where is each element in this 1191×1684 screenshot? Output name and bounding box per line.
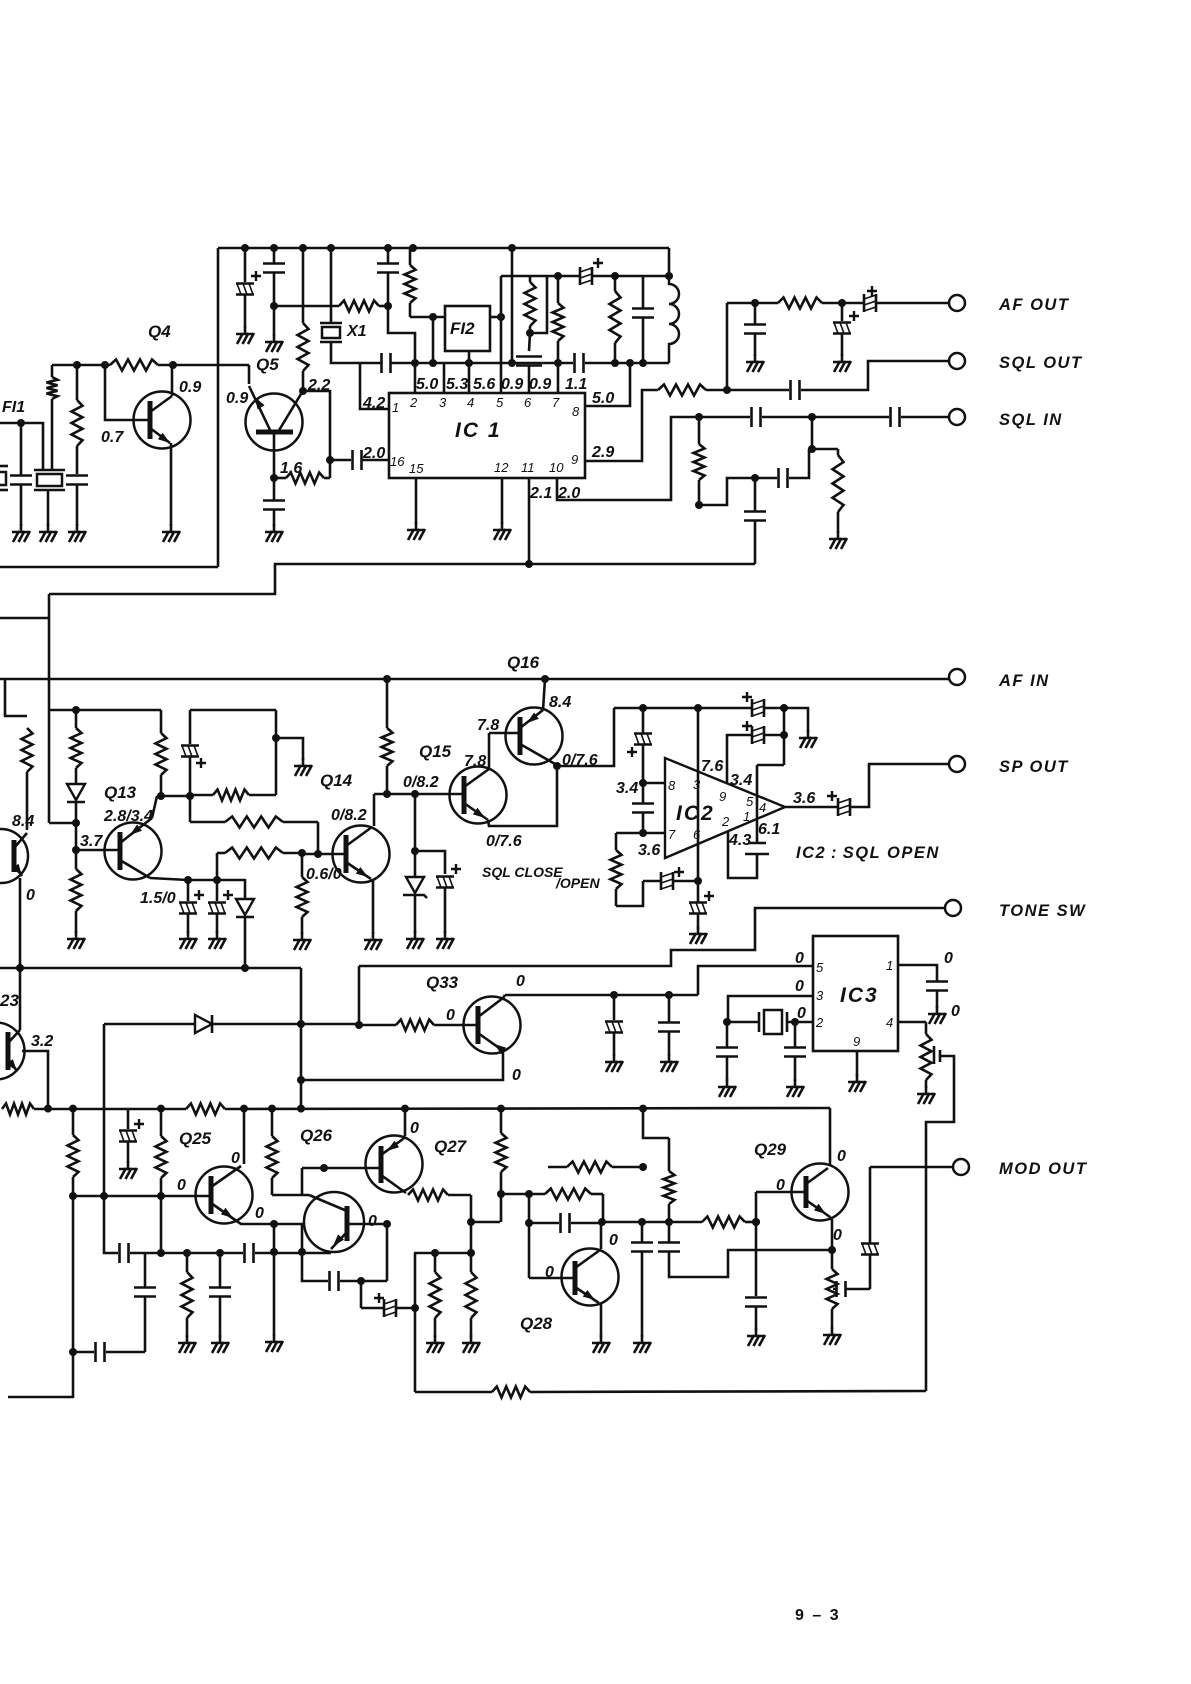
wire pin16 lead [330, 459, 351, 462]
wire C-R2 lead [76, 485, 79, 527]
svg-text:0: 0 [231, 1150, 240, 1167]
wire bottom rail b [530, 1391, 926, 1392]
wire Q5 base cap lead [273, 478, 276, 500]
wire 76 drop [75, 823, 78, 850]
resistor R73 [72, 1109, 75, 1135]
resistor R-Q33base [359, 1024, 396, 1027]
transistor Q14 collector [346, 827, 372, 846]
svg-text:2.9: 2.9 [591, 444, 614, 461]
wire ecap842 lead [841, 303, 844, 321]
capacitor C-Q5-base [263, 499, 285, 502]
node row-73 [69, 1105, 77, 1113]
wire x529 [528, 1194, 531, 1278]
node row-244 [240, 1105, 248, 1113]
node FI1 in [17, 419, 25, 427]
svg-text:1: 1 [392, 400, 399, 415]
wire x512 [511, 248, 514, 363]
svg-text:0: 0 [26, 887, 35, 904]
wire notch [5, 679, 27, 716]
svg-text:3: 3 [816, 988, 824, 1003]
node 359-1025 [355, 1021, 363, 1029]
transistor Q16 emitter lead [543, 679, 545, 710]
resistor R76a [75, 710, 78, 728]
wire tone sw [359, 908, 945, 966]
wire cap lead2 [20, 485, 23, 527]
wire 530-547 [530, 276, 547, 333]
wire ladder top [190, 709, 276, 712]
svg-text:7.6: 7.6 [701, 758, 723, 775]
transistor Q33 emitter [478, 1033, 502, 1050]
transistor Q13 bar [118, 832, 123, 870]
node 388-306 [384, 302, 392, 310]
capacitor C-1223 [559, 1213, 562, 1233]
svg-text:0: 0 [797, 1005, 806, 1022]
transistor Q23 [0, 1023, 25, 1080]
wire y1194 [501, 1193, 545, 1196]
svg-text:0.9: 0.9 [226, 390, 248, 407]
wire Q26 base wire [347, 1223, 387, 1226]
resistor R-Q12 [22, 728, 33, 772]
svg-text:7.8: 7.8 [464, 753, 486, 770]
node 756-1222b [752, 1218, 760, 1226]
diode D204 [195, 1015, 212, 1033]
opamp IC2 triangle [665, 758, 785, 858]
wire cap755 lead [754, 303, 757, 324]
node 301-1080 [297, 1076, 305, 1084]
transistor Q26 collector [309, 1195, 347, 1211]
wire Q4-Q5 link [248, 365, 251, 384]
wire ecap643 lead [642, 708, 645, 733]
node 73-1352 [69, 1348, 77, 1356]
resistor R-row-mid [186, 1104, 225, 1115]
wire r822 left leg [189, 795, 192, 822]
resistor R558 pin7 [557, 276, 560, 303]
capacitor C755b [744, 510, 766, 513]
wire y1352 b [106, 1351, 145, 1354]
ground G217 [216, 931, 219, 939]
wire ecap698 lead [697, 881, 700, 902]
resistor R501 [500, 1109, 503, 1133]
capacitor C-elec735 [751, 726, 754, 744]
wire y363 c [585, 362, 669, 365]
transistor Q5 [246, 394, 303, 451]
transistor Q16 [506, 708, 563, 765]
wire x104 ext [104, 1196, 118, 1253]
svg-text:1.6: 1.6 [280, 460, 302, 477]
wire y710 [49, 709, 161, 712]
node 501-1194 [497, 1190, 505, 1198]
capacitor C-afout [863, 294, 866, 312]
wire x361 [360, 1281, 363, 1308]
wire afout c [877, 302, 949, 305]
svg-text:9: 9 [853, 1034, 860, 1049]
node row-643 [639, 1105, 647, 1113]
wire ic3 pin3 [728, 996, 813, 1022]
node A2 [101, 361, 109, 369]
wire ecap842 lead2 [841, 334, 844, 356]
wire Q4 base [105, 365, 150, 420]
svg-text:3.2: 3.2 [31, 1033, 53, 1050]
transistor Q16 collector [520, 744, 555, 764]
node 433-363 [429, 359, 437, 367]
wire stub to gnd [276, 738, 303, 760]
node 76-823 [72, 819, 80, 827]
ground G755 [754, 354, 757, 362]
wire pin8 [585, 363, 630, 406]
node 471-1253 [467, 1249, 475, 1257]
transistor Q13 emitter [120, 818, 152, 843]
wire FI2 drop [432, 317, 435, 363]
wire 784-757 [757, 764, 784, 767]
ground G698 [697, 926, 700, 934]
wire Q16 base [489, 732, 520, 735]
node row-301 [297, 1105, 305, 1113]
svg-text:3.6: 3.6 [793, 790, 815, 807]
wire Q25 emitter [238, 1222, 302, 1252]
svg-text:SQL CLOSE: SQL CLOSE [482, 864, 563, 880]
node 104-1196 [100, 1192, 108, 1200]
svg-text:Q15: Q15 [419, 742, 452, 761]
wire Q25 base [73, 1195, 211, 1198]
wire y363 b [391, 362, 573, 365]
capacitor C-elec842 [833, 321, 851, 324]
node 73-1196 [69, 1192, 77, 1200]
svg-text:MOD OUT: MOD OUT [999, 1160, 1088, 1178]
svg-text:3: 3 [693, 777, 701, 792]
wire y1253 right [414, 1252, 471, 1255]
wire pin7 wire [643, 832, 665, 835]
node 643-1167 [639, 1163, 647, 1171]
svg-text:Q29: Q29 [754, 1140, 787, 1159]
svg-text:0: 0 [177, 1177, 186, 1194]
svg-text:Q13: Q13 [104, 783, 137, 802]
svg-text:Q26: Q26 [300, 1126, 333, 1145]
wire ecap188 lead2 [187, 914, 190, 933]
wire y1223 cap lead [529, 1222, 559, 1225]
wire x274 [273, 1224, 276, 1252]
node rail2 [270, 244, 278, 252]
capacitor C-elec190 [181, 744, 199, 747]
wire y1308 b [397, 1307, 415, 1310]
svg-text:IC 1: IC 1 [455, 419, 502, 442]
wire 415 drop [414, 794, 417, 851]
transistor Q15 bar [462, 776, 467, 814]
wire pin5 bus [698, 966, 813, 995]
plus C842 [849, 311, 859, 321]
ground G188 [187, 931, 190, 939]
ground G-FI1 [47, 524, 50, 532]
wire ecap643 lead2 [642, 745, 645, 782]
plus C128 [134, 1119, 144, 1129]
wire Q27 base [302, 1167, 381, 1170]
wire x471 [470, 1195, 473, 1253]
wire 217 drop [216, 853, 219, 880]
svg-text:8: 8 [572, 404, 580, 419]
svg-text:Q16: Q16 [507, 653, 540, 672]
node FI2 in [429, 313, 437, 321]
resistor R76b [75, 850, 78, 869]
wire x757 pin5-1 [756, 765, 759, 842]
wire x274 gnd [273, 1252, 276, 1336]
ground G303 [302, 758, 305, 766]
wire y1223 b [571, 1222, 602, 1225]
transistor Q26 bar [345, 1206, 350, 1241]
transistor Q5 emitter [249, 386, 271, 432]
plus C-afout [867, 286, 877, 296]
wire Q14 base [302, 853, 346, 856]
node 529-1223 [525, 1219, 533, 1227]
node 76-710 [72, 706, 80, 714]
node 387-1224 [383, 1220, 391, 1228]
wire xtal lead2 [787, 1021, 813, 1024]
resistor R-1222 [702, 1217, 745, 1228]
wire diode245 lead [244, 918, 247, 968]
transistor Q15 collector [464, 769, 489, 787]
node Q12e [16, 964, 24, 972]
ground G669 [668, 1054, 671, 1062]
node 698-708 [694, 704, 702, 712]
ic IC3 box [813, 936, 898, 1051]
crystal X2 [758, 1012, 761, 1032]
wire cap727 lead2 [726, 1057, 729, 1082]
node 832-1250 [828, 1246, 836, 1254]
resistor R471 [470, 1253, 473, 1272]
capacitor C388 [377, 262, 399, 265]
wire y1222 a [471, 1221, 500, 1224]
node diode245 [241, 964, 249, 972]
resistor R187 [186, 1253, 189, 1272]
wire ecap190 lead2 [189, 757, 192, 795]
svg-text:Q14: Q14 [320, 771, 353, 790]
node pin8 [639, 779, 647, 787]
wire FI1 top left [0, 423, 43, 469]
node 615-363 [611, 359, 619, 367]
wire c841 lead [833, 1288, 837, 1291]
capacitor C-1281 [328, 1271, 331, 1291]
ground G838 [837, 531, 840, 539]
capacitor C669 [658, 1021, 680, 1024]
svg-text:5.3: 5.3 [446, 376, 468, 393]
resistor R669 [668, 1138, 671, 1171]
transistor Q13 emitter lead [152, 796, 157, 818]
transistor Q16 bar [518, 717, 523, 755]
transistor Q28 collector [575, 1250, 600, 1268]
capacitor C363a [380, 353, 383, 373]
wire cap220 lead [219, 1253, 222, 1287]
wire y1024 b [212, 1023, 359, 1026]
svg-text:Q4: Q4 [148, 322, 171, 341]
node 76-850 [72, 846, 80, 854]
transistor Q14 emitter [346, 862, 371, 879]
filter FI2 box [445, 306, 490, 351]
wire ecap128 lead2 [127, 1142, 130, 1163]
wire afout b [842, 302, 863, 305]
svg-text:5.0: 5.0 [416, 376, 438, 393]
wire cap643b lead [642, 783, 645, 803]
capacitor C-elec subrail [579, 267, 582, 285]
svg-text:Q33: Q33 [426, 973, 459, 992]
svg-text:5.6: 5.6 [473, 376, 495, 393]
node rail4 [327, 244, 335, 252]
ground G-R2 [76, 524, 79, 532]
node sub1 [554, 272, 562, 280]
transistor Q27 emitter lead [403, 1136, 405, 1139]
svg-text:2.1: 2.1 [529, 485, 552, 502]
wire to left edge y567 [0, 566, 218, 569]
svg-text:1.5/0: 1.5/0 [140, 890, 176, 907]
svg-text:11: 11 [521, 460, 535, 475]
wire mod out stub [869, 1167, 872, 1243]
filter FI1 symbol [34, 469, 65, 472]
wire y735 b [764, 734, 784, 737]
ground G-Q28 [600, 1335, 603, 1343]
svg-text:7: 7 [668, 827, 676, 842]
node row-161 [157, 1105, 165, 1113]
wire 603 corner [602, 1194, 605, 1222]
transistor Q12 bar [12, 840, 17, 872]
diode D245 [236, 899, 254, 915]
ground G-pin15 [415, 522, 418, 530]
wire y1024 [104, 1023, 194, 1026]
transistor Q13 [105, 823, 162, 880]
wire y796 [157, 795, 190, 798]
transistor Q33 [464, 997, 521, 1054]
wire mod out [870, 1166, 953, 1169]
wire cap388 lead [387, 248, 390, 263]
wire pin1 [360, 363, 389, 409]
node 415-1308 [411, 1304, 419, 1312]
wire r822 corner [317, 822, 320, 854]
svg-text:1.1: 1.1 [565, 376, 587, 393]
wire y1253 b [255, 1252, 331, 1255]
wire left vertical bus [217, 248, 220, 567]
wire top supply rail [218, 247, 669, 250]
wire Q4 emitter to gnd [170, 443, 173, 526]
node 614-995 [610, 991, 618, 999]
wire cap642 lead [641, 1222, 644, 1242]
svg-text:7.8: 7.8 [477, 717, 499, 734]
wire Q15 emitter [488, 766, 557, 826]
node 643-708 [639, 704, 647, 712]
node 669 [665, 272, 673, 280]
transistor Q25 emitter [211, 1203, 238, 1222]
svg-text:8.4: 8.4 [12, 813, 34, 830]
wire 359 drop [358, 966, 361, 1025]
resistor R616 [615, 833, 618, 850]
terminal AF OUT [949, 295, 965, 311]
svg-text:16: 16 [390, 454, 405, 469]
svg-text:SQL OUT: SQL OUT [999, 354, 1083, 372]
capacitor C-elec708 [751, 699, 754, 717]
svg-text:0: 0 [410, 1120, 419, 1137]
capacitor C841 [835, 1281, 838, 1297]
wire y968 bus [0, 967, 301, 970]
wire mod out stub2 [869, 1255, 872, 1289]
wire Q13 coll [150, 878, 245, 880]
wire bottom left [8, 1352, 73, 1397]
capacitor C-elec870 [861, 1242, 879, 1245]
node 220-1253 [216, 1249, 224, 1257]
plus Cout [827, 791, 837, 801]
wire 788-809 [789, 449, 809, 478]
ground G-Q4 [170, 524, 173, 532]
wire cap755b lead2 [754, 521, 757, 565]
node 669-1222 [665, 1218, 673, 1226]
wire pin15 [415, 478, 418, 524]
wire x698 vert [697, 708, 700, 881]
wire ecap190 lead [189, 710, 192, 744]
wire y1253 [130, 1252, 243, 1255]
svg-text:IC2 : SQL OPEN: IC2 : SQL OPEN [796, 844, 940, 862]
resistor R-ladder [190, 794, 213, 797]
terminal MOD OUT [953, 1159, 969, 1175]
wire row a [34, 1108, 186, 1111]
svg-text:2.0: 2.0 [362, 445, 385, 462]
resistor R838 [837, 449, 840, 455]
ground G471 [470, 1335, 473, 1343]
svg-text:2: 2 [721, 814, 730, 829]
terminal SQL OUT [949, 353, 965, 369]
node 602-1222 [598, 1218, 606, 1226]
ground G-C-FI1 [20, 524, 23, 532]
wire 3.2 [22, 1051, 48, 1109]
svg-text:3.7: 3.7 [80, 833, 103, 850]
wire Q14 emitter gnd [372, 879, 375, 934]
node row-405 [401, 1105, 409, 1113]
resistor R832 [831, 1250, 834, 1269]
resistor R-1167 [548, 1166, 567, 1169]
resistor R926 [925, 1022, 928, 1034]
wire sqlin c [901, 416, 949, 419]
capacitor C-sqlin1 [750, 407, 753, 427]
resistor R-Q5-coll [302, 248, 305, 323]
transistor Q25 [196, 1167, 253, 1224]
node 190-796 [186, 792, 194, 800]
wire cap145 lead2 [144, 1297, 147, 1353]
svg-text:5: 5 [746, 794, 754, 809]
ground G937 [936, 1006, 939, 1014]
svg-text:0: 0 [545, 1264, 554, 1281]
node 274-1224 [270, 1220, 278, 1228]
svg-text:3.4: 3.4 [730, 772, 752, 789]
wire cap756 lead [755, 1307, 758, 1331]
transistor Q23 bar [6, 1032, 11, 1070]
capacitor C1.1 [573, 353, 576, 373]
transistor Q27 collector [381, 1175, 406, 1193]
wire 870-844 [845, 1288, 870, 1291]
resistor R435 [434, 1253, 437, 1272]
node row-272 [268, 1105, 276, 1113]
node 361-1281 [357, 1277, 365, 1285]
wire U bottom [272, 1194, 309, 1197]
node pin11 [525, 560, 533, 568]
terminal AF IN [949, 669, 965, 685]
wire cap643 lead2 [642, 318, 645, 364]
wire 755-778 [755, 477, 777, 480]
wire X1 top [330, 248, 333, 323]
wire sqlout b [801, 361, 949, 390]
wire cap795 lead2 [794, 1057, 797, 1082]
capacitor C-edge partial [0, 472, 6, 485]
node A1 [73, 361, 81, 369]
svg-text:AF IN: AF IN [998, 672, 1050, 690]
transistor Q25 collector [211, 1166, 241, 1187]
wire rail right corner [668, 248, 671, 276]
node 699-505 [695, 501, 703, 509]
transistor Q15 emitter [464, 803, 488, 820]
svg-text:2.8/3.4: 2.8/3.4 [103, 808, 153, 825]
plus C1308 [374, 1293, 384, 1303]
